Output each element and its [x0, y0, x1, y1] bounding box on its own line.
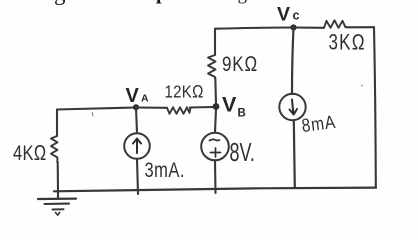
current source I2 down arrow	[290, 100, 298, 115]
stray pen speck	[361, 85, 363, 87]
wire top right segment after 3K	[347, 26, 374, 28]
wire VA down to 3mA source	[136, 108, 137, 134]
wire left vertical top (corner to 4K)	[56, 110, 58, 137]
label Vc	[277, 4, 300, 26]
node Vc dot	[290, 24, 296, 30]
node VA dot	[133, 104, 139, 110]
svg-text:8mA: 8mA	[301, 112, 338, 137]
ground	[38, 199, 76, 216]
wire 8V to bottom	[214, 160, 217, 193]
wire 4K to bottom	[57, 162, 59, 191]
ground stub	[57, 191, 59, 199]
svg-text:9KΩ: 9KΩ	[222, 53, 258, 76]
wire 8mA to bottom	[294, 120, 295, 188]
svg-text:8V.: 8V.	[230, 138, 255, 167]
wire 3mA to bottom	[137, 159, 138, 194]
svg-text:V: V	[222, 93, 237, 117]
svg-text:12KΩ: 12KΩ	[165, 81, 204, 102]
svg-text:g: g	[54, 0, 66, 5]
svg-text:g: g	[238, 0, 248, 5]
svg-text:A: A	[141, 93, 149, 105]
wire VB down to 8V source	[215, 109, 216, 133]
node VB dot	[213, 103, 220, 110]
svg-text:p: p	[156, 0, 167, 4]
svg-text:4KΩ: 4KΩ	[13, 142, 47, 166]
current source I2 8mA circle	[279, 94, 305, 120]
svg-text:B: B	[238, 108, 246, 120]
wire left branch of top loop (down to 9K)	[214, 29, 216, 55]
resistor 3K zigzag	[324, 20, 347, 28]
wire bottom horizontal	[54, 188, 376, 192]
svg-text:V: V	[126, 85, 140, 107]
stray pen speck	[91, 113, 94, 117]
svg-text:V: V	[277, 4, 290, 26]
wire 9K to VB	[214, 78, 217, 104]
current source I1 3mA circle	[124, 133, 150, 159]
voltage source plus sign	[211, 148, 221, 157]
voltage source minus sign	[210, 139, 220, 140]
resistor 12K zigzag	[167, 107, 191, 114]
wire top horizontal	[215, 28, 324, 29]
resistor 4K zigzag	[51, 136, 58, 162]
svg-text:c: c	[293, 9, 300, 23]
label VA	[126, 85, 150, 107]
label VB	[222, 93, 246, 120]
wire VA to 12K	[136, 106, 167, 108]
resistor 9K zigzag	[208, 55, 216, 78]
svg-text:3mA.: 3mA.	[145, 159, 185, 183]
wire Vc down to 8mA source	[292, 28, 294, 95]
svg-text:3KΩ: 3KΩ	[329, 30, 366, 55]
wire middle row left (corner to VA)	[57, 108, 136, 110]
current source I1 up arrow	[133, 139, 141, 154]
wire 12K to VB	[190, 106, 213, 109]
wire right vertical	[374, 27, 376, 187]
voltage source V1 8V circle	[201, 133, 229, 161]
